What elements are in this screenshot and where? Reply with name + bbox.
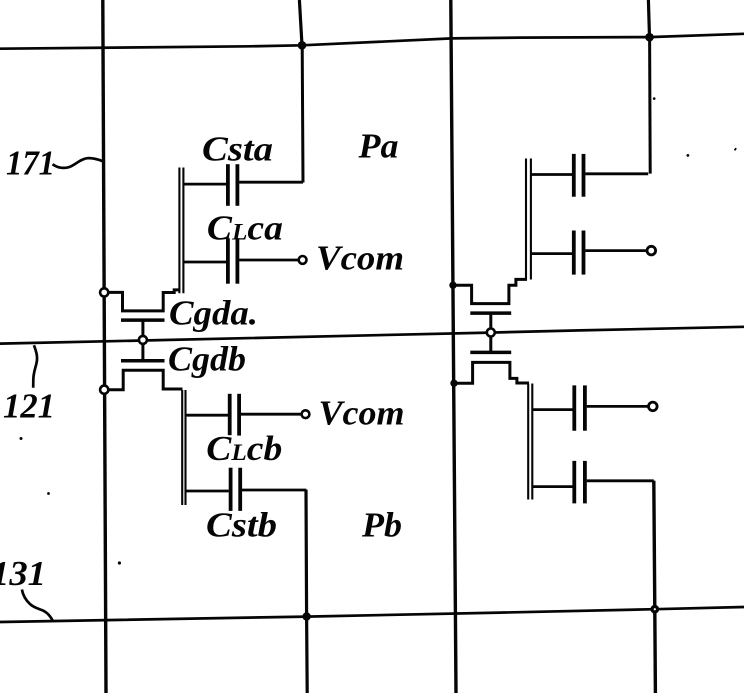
svg-text:131: 131 (0, 554, 46, 593)
svg-text:171: 171 (6, 144, 55, 183)
svg-text:Pb: Pb (361, 505, 402, 544)
svg-text:Cgda.: Cgda. (169, 294, 258, 333)
svg-text:121: 121 (3, 386, 55, 425)
svg-text:Cgdb: Cgdb (168, 340, 246, 379)
svg-text:Cstb: Cstb (206, 505, 277, 544)
svg-text:Vcom: Vcom (316, 238, 404, 277)
svg-text:Csta: Csta (202, 129, 273, 168)
svg-text:Vcom: Vcom (319, 394, 405, 433)
svg-text:Pa: Pa (357, 127, 398, 166)
